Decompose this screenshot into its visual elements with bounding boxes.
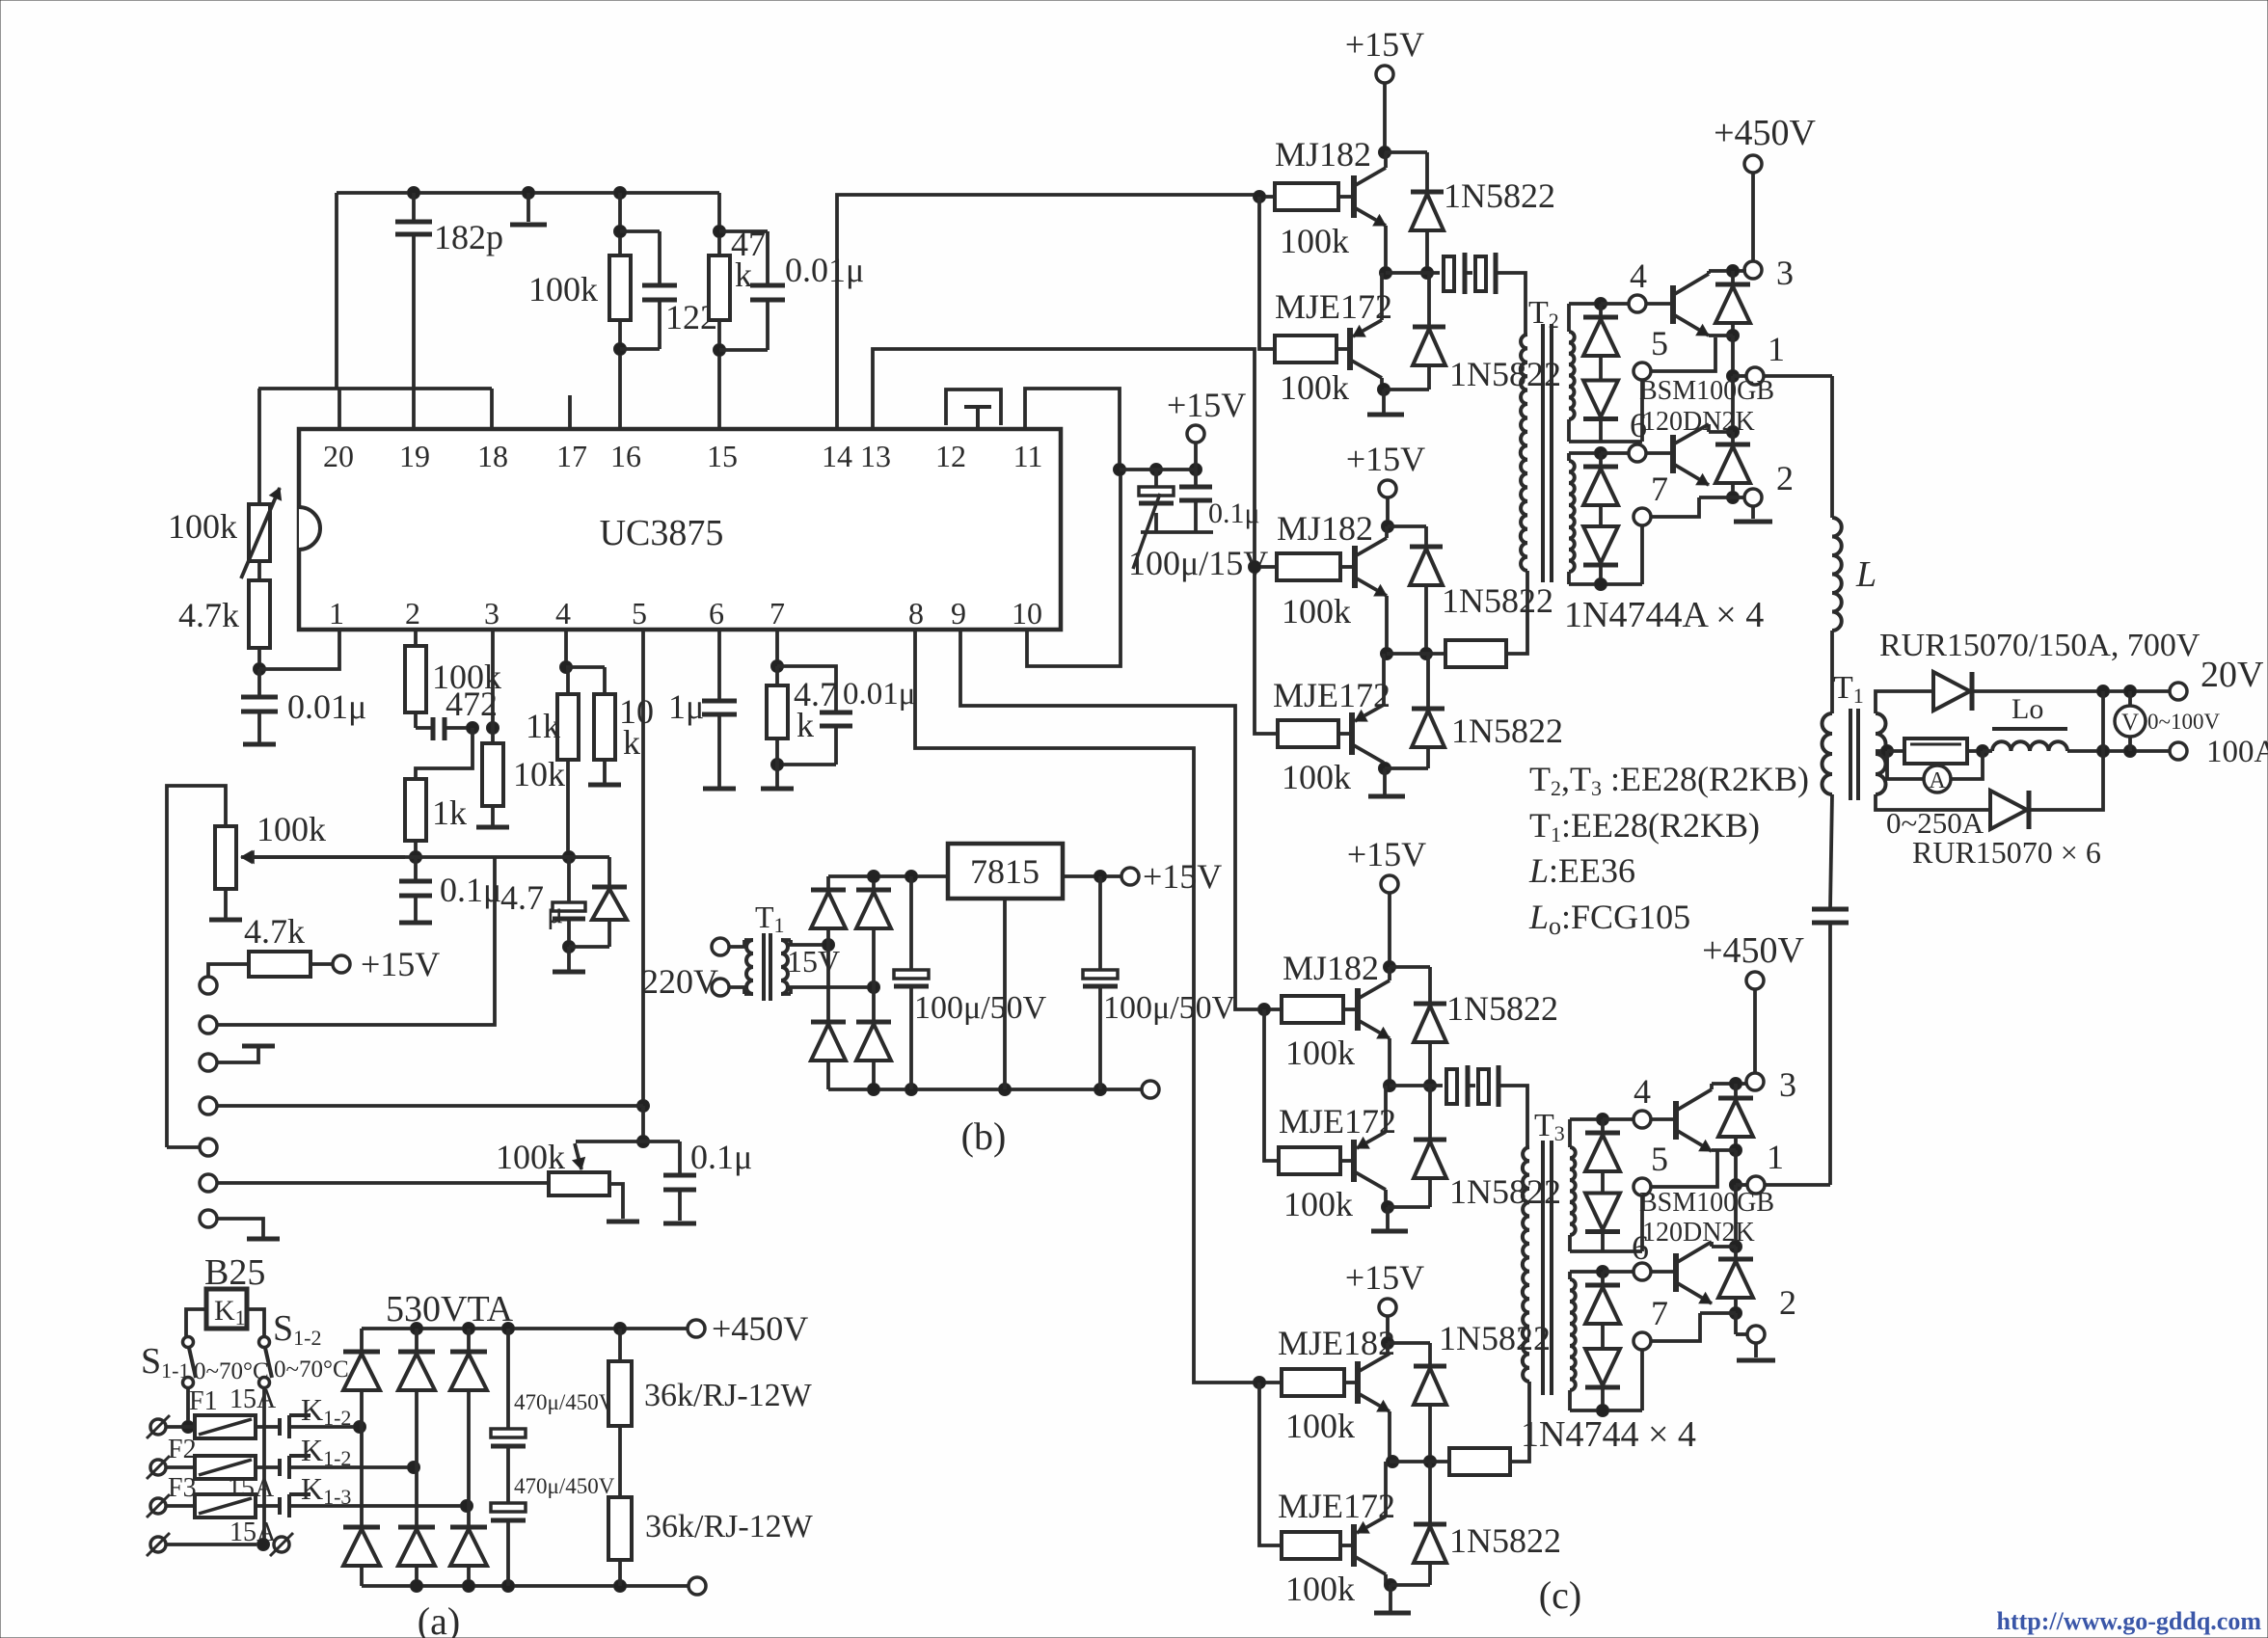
wire terminal7 down [1640,525,1644,584]
wire T1 center tap [1876,749,1887,753]
wire T2 sec upper top lead [1569,302,1601,306]
svg-text:16: 16 [610,439,641,473]
node +15V rail [1114,464,1126,476]
ground top bus [523,187,535,200]
diode bridge a top1 [360,1329,364,1352]
terminal input 4 [200,1097,217,1114]
ground 4.7u [567,947,571,970]
wire resistor to T3 bottom [1510,1382,1529,1462]
terminal 6 cell2 [1633,1263,1651,1280]
svg-text:9: 9 [951,596,966,631]
terminal b ground [1142,1081,1159,1098]
wire 47k bottom to pin15 [717,320,721,429]
node zener4 top [1597,1266,1609,1278]
diode D3a 1N5822 [1390,965,1430,969]
terminal 5 cell1 [1633,363,1651,380]
ground cell1 [1751,506,1755,519]
diode bridge a bottom2 [415,1467,418,1527]
transformer T2 primary [1521,335,1527,571]
svg-text:4: 4 [1633,1072,1651,1111]
svg-text:L:EE36: L:EE36 [1528,851,1635,890]
terminal 1 cell2 [1736,1183,1747,1187]
svg-text:7815: 7815 [970,852,1039,891]
contact K1-3 row3 [278,1497,282,1515]
svg-text:+15V: +15V [1345,25,1424,64]
node V3 collector [1730,1078,1742,1090]
wire pin2 stub [414,630,418,646]
wire node1 to L [1764,374,1832,378]
wire 7815 ground [1003,899,1007,1089]
terminal 220V lower [712,979,729,996]
diode D2b 1N5822 [1426,654,1430,709]
wire bottom diode to 100A line [2031,691,2103,810]
terminal +15V left [333,955,350,973]
diode RUR15070 bottom [1990,791,2027,829]
svg-text:100k: 100k [256,810,326,848]
wire top bus [337,191,719,195]
svg-text:1N5822: 1N5822 [1449,1521,1561,1560]
resistor 100k Q3 base [1277,553,1340,580]
voltmeter V [2128,691,2132,706]
zener chain 1N4744 upper [1601,1119,1605,1133]
node 20V line [2097,685,2110,698]
wire node A-B [416,855,569,859]
svg-text:1N5822: 1N5822 [1446,989,1558,1028]
svg-text:18: 18 [477,439,508,473]
wire top lead to 20V [1974,689,2170,693]
svg-text:2: 2 [405,596,420,631]
svg-text:1k: 1k [432,793,467,832]
node pin16 bus [614,187,627,200]
node bridge top [868,871,880,883]
node Q2 collector [1378,384,1390,396]
transistor V3 IGBT upper cell2 [1651,1117,1676,1121]
wire K1 left lead [186,1309,206,1337]
terminal 7 cell1 [1633,508,1651,525]
node pin5/terminal4 [637,1100,650,1113]
terminal F1 input [150,1419,166,1435]
svg-text:8: 8 [908,596,924,631]
wire rail caps bottom [1141,530,1213,534]
svg-text:+450V: +450V [712,1309,808,1348]
transformer T1 core [1849,709,1852,800]
wire pin15 branch [717,193,721,255]
resistor 100k Q1 base [1275,183,1338,210]
svg-text:100k: 100k [1285,1570,1355,1608]
wire pin17 stub [568,395,572,429]
capacitor 470u/450V upper [506,1329,510,1429]
svg-text:470μ/450V: 470μ/450V [514,1390,615,1414]
terminal bottom a [688,1577,706,1595]
svg-text:L: L [1855,554,1876,595]
svg-text:MJE182: MJE182 [1278,1324,1395,1362]
capacitor 0.01u pin7 [777,666,836,712]
svg-text:k: k [623,723,640,762]
node shunt right [1967,749,1983,753]
wire terminal5 to rail [167,1145,201,1149]
wire 1k pin4 down [566,760,570,857]
resistor coupling driver2 [1445,640,1506,667]
svg-text:RUR15070 × 6: RUR15070 × 6 [1912,835,2101,870]
svg-text:2: 2 [1779,1283,1796,1322]
diode D2a 1N5822 [1388,524,1426,528]
wire V4 emitter lead [1698,1313,1702,1319]
wire pot to ground [609,1184,623,1219]
capacitor coupling driver1 [1444,256,1454,291]
wire contact1 to bridge [289,1425,360,1429]
transformer T2 core [1541,324,1545,582]
wire F3 to contact [256,1504,280,1508]
svg-text:MJE172: MJE172 [1273,676,1390,714]
diode bridge a top2 [415,1329,418,1352]
svg-text:19: 19 [399,439,430,473]
wire terminal7 cell2 to emitter [1651,1319,1700,1341]
wire F1 to contact [256,1425,280,1429]
diode 4.7u parallel [569,855,609,859]
wire Q6 emitter [1384,1086,1388,1132]
wire S1-1 bottom to F1 [186,1388,190,1427]
wire pin7 stub [775,630,779,666]
wire T1 sec bottom lead [1876,794,1988,810]
node bridge col3 mid [461,1500,473,1513]
svg-text:BSM100GB: BSM100GB [1639,376,1774,406]
wire Q7 emitter to out [1388,1411,1391,1462]
transistor V4 IGBT lower cell2 [1651,1270,1676,1274]
resistor 4.7k pin7 [775,666,779,685]
node Q3 input [1249,561,1261,574]
resistor 100k Q7 base [1282,1369,1344,1396]
transformer T2 secondary lower [1569,461,1575,572]
svg-text:BSM100GB: BSM100GB [1639,1188,1774,1218]
wire pin10 routing [1027,470,1120,666]
wire V3 collector [1710,1084,1714,1089]
svg-text:4: 4 [555,596,571,631]
resistor 100k Q6 base [1279,1147,1340,1174]
svg-text:0.01μ: 0.01μ [785,251,864,289]
wire resistor to T2 bottom [1506,571,1527,654]
node bridge col2 mid [408,1462,420,1474]
resistor 10k pin3 [491,728,495,743]
transformer T3 secondary upper [1570,1147,1576,1235]
svg-text:470μ/450V: 470μ/450V [514,1474,615,1498]
wire y403 rail [258,387,492,390]
wire terminal3 stub [217,1048,258,1062]
node Q1 collector [1379,147,1391,159]
wire T1b sec top to bridge [791,940,828,945]
svg-text:V: V [2121,710,2139,736]
node Q3 collector [1382,521,1394,533]
terminal F3 input [150,1498,166,1514]
svg-text:(c): (c) [1539,1573,1581,1617]
diode bridge a bottom1 [360,1427,364,1527]
capacitor 472 [414,712,418,728]
node zener2 top [1595,447,1607,460]
node 100k/122 bottom [614,343,627,356]
transformer T1b primary [729,940,744,947]
wire node1 to lower collector [1731,376,1735,432]
terminal neutral output [274,1537,289,1552]
terminal 4 cell1 [1629,295,1646,312]
node Q1 input [1254,191,1266,203]
node Q5 collector [1384,961,1396,974]
svg-text:100k: 100k [1285,1034,1355,1072]
wire driver1 bus [1259,197,1275,349]
svg-text:6: 6 [1632,1228,1649,1267]
svg-text:14: 14 [822,439,852,473]
resistor 100k Q2 base [1275,336,1336,363]
resistor 36k upper [618,1329,622,1361]
wire caps to T3 top [1498,1086,1527,1147]
transistor V2 IGBT lower [1646,451,1673,455]
inductor Lo [1983,749,1992,753]
wire zener3 bottom [1570,1249,1642,1253]
diode D4b 1N5822 [1428,1462,1432,1524]
zener chain 1N4744A lower [1599,453,1603,467]
ammeter A [1887,751,1924,779]
wire node1 to V4 collector [1734,1185,1738,1247]
svg-text:36k/RJ-12W: 36k/RJ-12W [645,1509,814,1544]
resistor 100k Q5 base [1282,996,1343,1023]
ground driver2 [1383,768,1387,794]
terminal F2 input [150,1460,166,1475]
wire bridge top bus a [362,1327,688,1330]
wire cap to node1 cell2 [1828,923,1832,1185]
capacitor 0.1u node A [414,857,418,881]
terminal +15V b [1121,868,1139,885]
capacitor output resonant [1812,907,1849,912]
svg-text:4.7: 4.7 [500,878,544,917]
svg-text:k: k [796,706,814,744]
wire Q4 emitter [1382,654,1386,705]
ground pot lower-left [224,889,228,918]
wire terminal7 to emitter2 [1651,497,1699,517]
wire driver3 bus [1264,1009,1279,1161]
wire K1 right lead [247,1309,264,1337]
wire T1b sec bottom to bridge [791,987,874,994]
wire contact3 to bridge [289,1504,467,1508]
wire V2 collector [1707,424,1711,432]
node bottom bus a [411,1580,423,1593]
capacitor 0.01u pin15 [750,283,785,288]
svg-text:0.01μ: 0.01μ [287,687,366,726]
svg-text:UC3875: UC3875 [600,513,724,553]
diode bridge b bottom-left [826,945,830,1022]
transformer T2 secondary upper [1569,332,1575,419]
svg-text:http://www.go-gddq.com: http://www.go-gddq.com [1997,1607,2262,1635]
node Q4 collector [1382,763,1386,768]
node Q7 collector [1382,1337,1394,1350]
wire pin16 branch [618,193,622,255]
svg-text:10: 10 [1012,596,1042,631]
regulator 7815 [948,844,1063,899]
svg-text:1N5822: 1N5822 [1444,176,1555,215]
svg-text:RUR15070/150A, 700V: RUR15070/150A, 700V [1879,628,2200,663]
fuse F3 [195,1494,256,1517]
diode bridge a top3 [467,1329,471,1352]
wire pin8 routing [915,630,1259,1383]
svg-text:100k: 100k [1285,1407,1355,1445]
diode DV2 antiparallel [1731,432,1735,443]
svg-text:5: 5 [1651,324,1668,363]
terminal 7 cell2 [1633,1332,1651,1350]
svg-text:0~100V: 0~100V [2147,710,2220,734]
wire V1 collector [1707,271,1711,274]
svg-text:5: 5 [1651,1140,1668,1178]
resistor 4.7k left [257,561,261,580]
diode DV4 antiparallel [1734,1247,1738,1258]
transformer T3 primary [1523,1147,1529,1382]
resistor 4.7k +15V row [208,964,249,977]
node Q6 collector [1384,1190,1388,1207]
wire bridge top bus [828,874,948,878]
svg-text:+15V: +15V [1347,835,1426,873]
terminal 220V upper [712,938,729,955]
ground driver3 [1386,1207,1390,1229]
terminal +450V a [688,1320,705,1337]
node bridge right mid [868,981,880,994]
svg-text:2: 2 [1776,459,1794,497]
resistor 1k pin4 [566,665,568,669]
wire Q8 emitter [1384,1462,1388,1517]
svg-text:0~70°C: 0~70°C [274,1356,349,1383]
resistor 47k pin15 [709,255,730,320]
terminal input 1 [200,977,217,994]
svg-text:530VTA: 530VTA [386,1289,514,1329]
wire S1-2 bottom rail [262,1388,266,1544]
node V1 collector [1727,265,1740,278]
terminal input 5 [200,1139,217,1156]
node pin7 bottom [771,759,784,771]
terminal 1 cell1 [1733,374,1746,378]
wire Q2 emitter to out [1380,273,1384,320]
svg-text:+450V: +450V [1714,113,1816,153]
potentiometer 100k left [257,389,261,504]
svg-text:+15V: +15V [1143,857,1222,896]
wire left rail [167,786,226,1147]
svg-text:+15V: +15V [1167,386,1246,424]
terminal 20V [2170,683,2187,700]
svg-text:MJ182: MJ182 [1275,135,1371,174]
ground driver1 [1382,389,1386,413]
node Q8 collector [1384,1574,1388,1585]
svg-text:1: 1 [1768,330,1785,368]
svg-text:100k: 100k [168,507,237,546]
node driver3 out [1384,1080,1396,1092]
svg-text:1: 1 [329,596,344,631]
svg-text:182p: 182p [434,218,503,256]
node driver2 out [1381,648,1393,660]
node zener4 bottom [1597,1405,1609,1417]
wire zener2 bottom [1569,582,1642,586]
svg-text:100k: 100k [1282,592,1351,631]
node V1 emitter [1727,330,1740,342]
resistor 1k pin2 chain [416,728,472,779]
svg-text:5: 5 [632,596,647,631]
node top bus a [411,1323,423,1335]
svg-text:0.1μ: 0.1μ [690,1138,752,1176]
svg-text:μ: μ [547,895,563,929]
svg-text:100k: 100k [1282,758,1351,796]
wire T3 sec upper top lead [1570,1117,1603,1121]
svg-text:+450V: +450V [1702,930,1804,971]
terminal neutral input [150,1537,166,1552]
node V3 emitter [1730,1144,1742,1157]
wire 4.7k to pin1 [257,648,261,669]
contact K1-2 row1 [278,1418,282,1436]
node 100k/122 top [614,226,627,238]
transformer T1b core [762,933,766,1001]
ground 10k pin4 [603,760,607,783]
wire terminal5 to emitter [1651,337,1715,371]
svg-text:7: 7 [1651,1294,1668,1332]
svg-text:A: A [1929,768,1946,793]
svg-text:1N5822: 1N5822 [1451,712,1563,750]
svg-text:(b): (b) [961,1114,1007,1158]
wire bridge bottom bus a [362,1584,688,1588]
fuse F2 [195,1456,256,1479]
svg-text:100k: 100k [1280,368,1349,407]
svg-text:100A: 100A [2206,735,2268,769]
diode D3b 1N5822 [1428,1086,1432,1140]
node 47k/0.01u bottom [714,344,726,357]
svg-text:+15V: +15V [1346,440,1425,478]
node V2 emitter [1727,492,1740,504]
transformer T1 primary [1822,713,1833,794]
svg-text:15A: 15A [229,1384,277,1414]
capacitor 100u/50V output [1098,876,1102,970]
zener chain 1N4744A upper [1599,304,1603,317]
svg-text:100k: 100k [496,1138,565,1176]
wire zener bottom [1569,440,1642,443]
diode D1b 1N5822 [1427,273,1431,327]
wire wiper arrow [243,855,416,859]
svg-text:Lo: Lo [2011,693,2043,725]
node Q5 input [1258,1004,1271,1016]
svg-text:T2,T3 :EE28(R2KB): T2,T3 :EE28(R2KB) [1529,760,1809,800]
wire terminal4 to pin5 [217,1104,643,1108]
svg-text:1μ: 1μ [668,687,704,726]
wire bridge bottom bus [828,1088,1142,1091]
wire Q3 emitter to out [1385,596,1389,654]
node 100A line [2097,745,2110,758]
svg-text:17: 17 [556,439,587,473]
svg-text:3: 3 [484,596,499,631]
node 472 right [467,722,479,735]
svg-text:13: 13 [860,439,891,473]
svg-text:MJ182: MJ182 [1282,949,1379,987]
capacitor 122 [642,283,677,288]
svg-text:3: 3 [1779,1065,1796,1104]
terminal +15V rail [1194,443,1198,470]
wire pin11 routing [1025,389,1120,470]
svg-text:F2: F2 [168,1435,197,1464]
svg-text:1N5822: 1N5822 [1442,581,1553,620]
svg-text:F3: F3 [168,1473,197,1503]
capacitor 0.1u bottom [678,1141,682,1175]
wire terminal5 cell2 down [1640,1195,1644,1251]
resistor 100k Q4 base [1278,720,1338,747]
terminal 4 cell2 [1633,1111,1651,1128]
node B [563,851,576,864]
svg-text:1: 1 [1767,1138,1784,1176]
svg-text:100k: 100k [1280,222,1349,260]
diode DV1 antiparallel [1731,271,1735,283]
potentiometer 100k lower-left [215,826,236,889]
resistor 100k pin16 [609,255,631,320]
node bottom bus [868,1084,880,1096]
capacitor 470u/450V lower [491,1503,526,1512]
wire T1 primary to cap [1830,794,1832,909]
